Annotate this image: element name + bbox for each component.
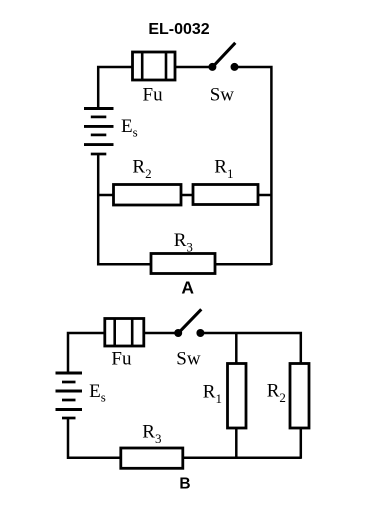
svg-text:Fu: Fu — [111, 349, 132, 370]
wire: junction down to R1 (circuit B) — [235, 333, 238, 364]
svg-text:Fu: Fu — [143, 84, 164, 105]
svg-text:B: B — [179, 475, 190, 492]
resistor R3 (circuit A) — [151, 254, 215, 274]
fuse Fu (circuit B) — [105, 319, 144, 347]
resistor R1 (circuit B) — [228, 364, 247, 429]
wire: fuse A to switch A — [175, 66, 209, 69]
wire: battery B bottom to bottom wire — [68, 418, 301, 458]
wire: R1 bottom to bottom wire (circuit B) — [235, 428, 238, 458]
battery Es (circuit A) — [84, 109, 114, 155]
wire: switch A to top-right corner, down right side — [238, 67, 271, 265]
wire: fuse B to switch B — [144, 332, 175, 335]
switch Sw (circuit A) — [208, 43, 238, 71]
wire: battery A bottom to bottom-left corner — [98, 154, 271, 264]
wire: middle row (R2,R1) circuit A — [98, 194, 271, 197]
wire: battery B top to fuse B — [68, 333, 105, 372]
svg-text:Sw: Sw — [210, 84, 235, 105]
switch Sw (circuit B) — [174, 309, 204, 337]
fuse Fu (circuit A) — [133, 52, 176, 80]
svg-text:Sw: Sw — [176, 349, 201, 370]
resistor R2 (circuit B) — [290, 364, 309, 429]
svg-text:A: A — [181, 278, 194, 298]
battery Es (circuit B) — [56, 373, 83, 418]
resistor R3 (circuit B) — [121, 448, 183, 468]
resistor R1 (circuit A) — [193, 185, 258, 205]
wire: battery A top to fuse A — [98, 67, 132, 108]
svg-text:EL-0032: EL-0032 — [148, 21, 209, 38]
resistor R2 (circuit A) — [114, 185, 182, 206]
wire: switch B to top-right corner, down to R2 — [204, 333, 301, 364]
wire: R2 bottom to bottom-right corner (circuit B) — [300, 428, 303, 459]
